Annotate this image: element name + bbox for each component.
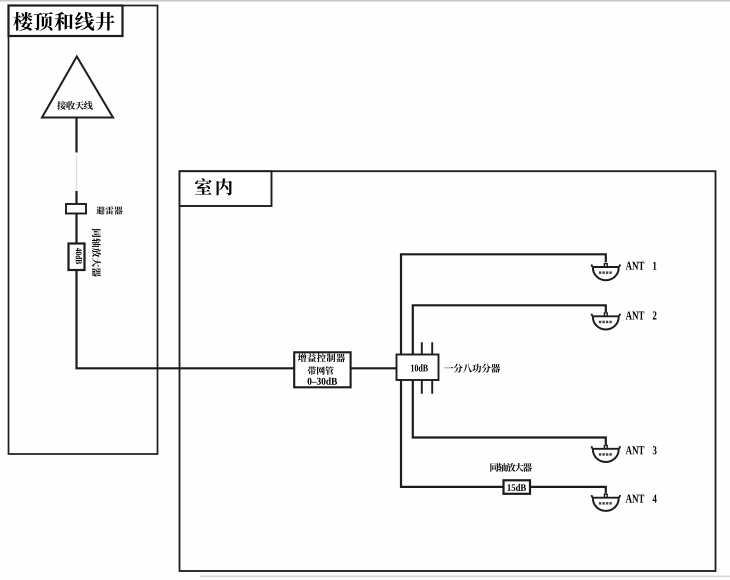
label 避雷器 [96, 206, 122, 214]
coaxial amplifier box 40dB [69, 244, 85, 271]
label ANT 1 [626, 262, 657, 270]
label text 室内 [195, 178, 232, 195]
wire: splitter to ANT4 via 15dB amplifier [401, 380, 606, 493]
wire: triangle to arrester (scan-faded midsection) [75, 118, 77, 153]
label text 楼顶和线井 [13, 12, 114, 31]
label box 楼顶和线井 [9, 6, 123, 37]
label 一分八功分器 [444, 364, 500, 373]
lightning arrester box [66, 204, 86, 214]
gain controller box [294, 352, 350, 387]
wire: splitter to ANT3 [413, 380, 606, 445]
label ANT 3 [626, 446, 657, 454]
label 接收天线 [57, 101, 93, 110]
wire: splitter to ANT1 [401, 254, 606, 354]
indoor outer box [180, 171, 716, 571]
text 0-30dB [308, 377, 338, 384]
splitter unused stub ports (bottom) [422, 380, 432, 394]
coaxial amplifier box 15dB [504, 480, 531, 494]
wire: arrester to amplifier [75, 214, 77, 244]
value 40dB (rotated) [76, 248, 82, 264]
antenna ANT3 symbol [592, 445, 620, 462]
antenna ANT1 symbol [592, 264, 620, 281]
label box 室内 [180, 171, 272, 206]
wire: splitter to ANT2 [413, 305, 606, 354]
value 15dB [508, 484, 526, 491]
value 10dB [411, 364, 428, 371]
label ANT 2 [626, 311, 657, 319]
label 同轴放大器 (vertical) [92, 229, 101, 277]
text 增益控制器 [298, 353, 345, 362]
antenna symbol: receiving antenna triangle [42, 57, 113, 118]
text 带网管 [308, 366, 334, 375]
label 同轴放大器 (above 15dB) [490, 463, 532, 472]
splitter box 10dB [397, 355, 439, 381]
outer box: roof & cable-shaft zone [9, 6, 158, 455]
label ANT 4 [626, 495, 657, 503]
wire: controller to splitter [351, 367, 397, 369]
wire: amplifier down then right to gain controller [77, 270, 295, 368]
antenna ANT2 symbol [592, 313, 620, 330]
splitter unused stub ports (top) [422, 342, 432, 354]
antenna ANT4 symbol [592, 494, 620, 511]
